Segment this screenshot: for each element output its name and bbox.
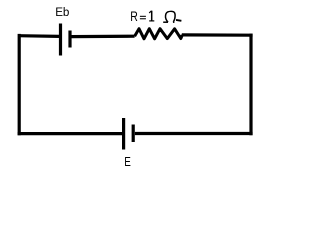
svg-text:Eb: Eb (55, 5, 69, 19)
svg-text:E: E (124, 154, 131, 169)
svg-text:R: R (130, 8, 138, 24)
